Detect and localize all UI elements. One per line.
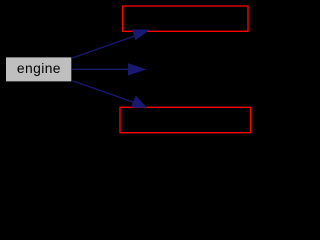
svg-text:engine: engine <box>17 60 61 76</box>
